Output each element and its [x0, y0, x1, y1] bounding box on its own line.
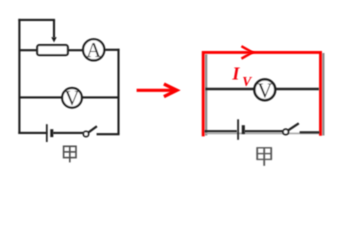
voltmeter V1	[62, 86, 82, 110]
battery (right cell)	[238, 119, 243, 140]
transform arrow (red, between circuits)	[137, 84, 177, 97]
label I_V (red, bold italic)	[231, 64, 252, 89]
wire: voltmeter branch (right circuit)	[206, 88, 320, 91]
switch S1	[83, 126, 97, 136]
shadow under bottom wire	[205, 132, 320, 134]
label 甲 (left, drawn strokes)	[64, 146, 76, 162]
wire: battery to switch	[244, 130, 283, 132]
wire: switch to bottom right corner	[98, 133, 119, 135]
wire: bottom left of right circuit to battery	[205, 131, 320, 132]
wire: battery to switch	[53, 132, 84, 134]
slider arrow head of rheostat	[51, 37, 56, 42]
wire: ammeter to right corner	[104, 49, 118, 51]
svg-text:V: V	[242, 74, 252, 89]
label 甲 (right, drawn strokes)	[256, 148, 272, 166]
red frame (current loop, three sides)	[203, 52, 320, 136]
svg-text:A: A	[86, 38, 102, 62]
wire: slider branch top horizontal	[19, 19, 54, 21]
rheostat R (slide resistor box)	[37, 45, 68, 55]
wire: right vertical bus	[117, 50, 119, 133]
wire: left vertical bus	[18, 20, 20, 133]
wire: switch to right leg	[300, 131, 320, 133]
red current direction arrow on top bar	[241, 46, 252, 58]
shadow of red frame (right of legs)	[206, 53, 323, 136]
svg-text:V: V	[257, 78, 272, 102]
wire: left lead to rheostat	[19, 49, 37, 51]
ammeter A	[83, 38, 104, 62]
battery (left cell)	[47, 124, 52, 142]
wire: slider drop to rheostat	[53, 20, 55, 38]
svg-text:V: V	[64, 86, 79, 110]
svg-text:I: I	[231, 64, 240, 84]
wire: bottom left to battery	[19, 132, 45, 134]
switch S2	[283, 123, 299, 134]
wire: voltmeter branch	[19, 96, 118, 98]
wire: rheostat to ammeter	[68, 49, 83, 51]
voltmeter V2	[254, 78, 275, 102]
